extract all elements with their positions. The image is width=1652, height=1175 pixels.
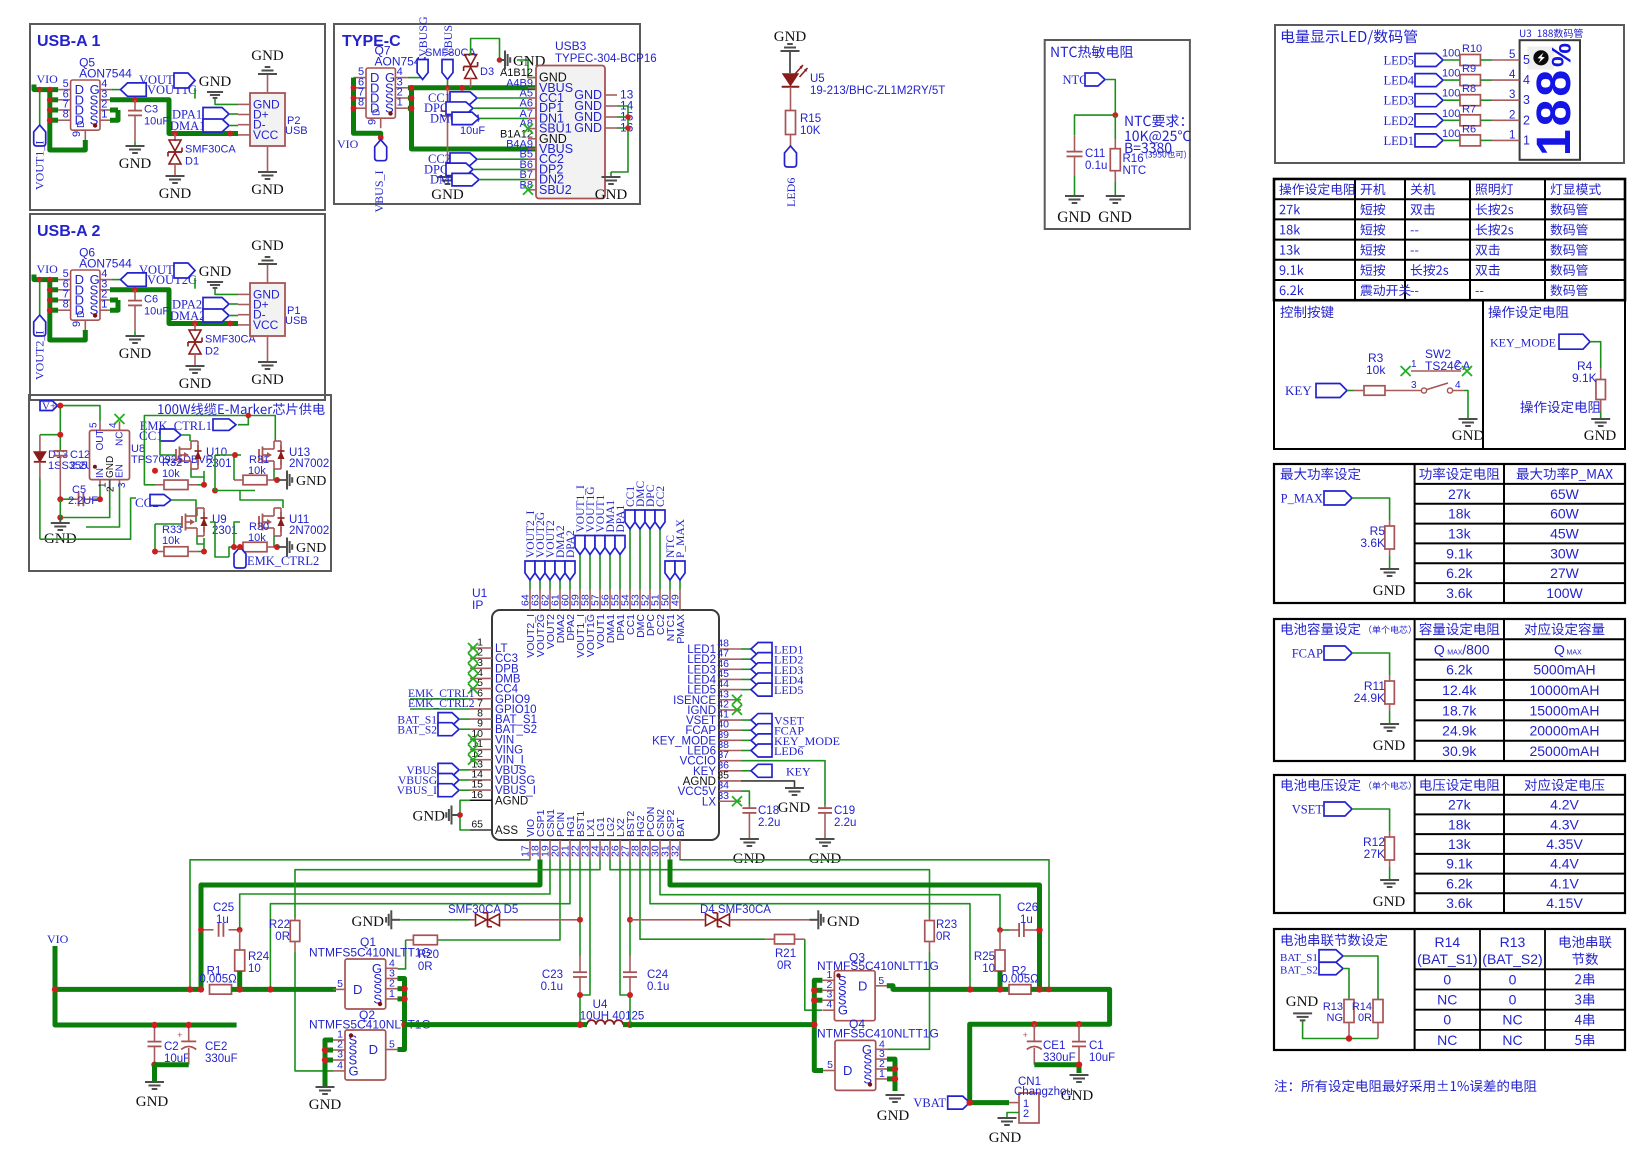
ground C1 bbox=[1061, 1075, 1094, 1104]
net flag LED1 (U1) bbox=[741, 643, 803, 657]
svg-text:2.2UF: 2.2UF bbox=[68, 495, 98, 507]
junction dots Q1 riser bbox=[401, 986, 407, 1028]
svg-text:SMF30CA: SMF30CA bbox=[185, 144, 236, 156]
net flag VOUT1G (top) bbox=[585, 487, 597, 590]
svg-text:4.1V: 4.1V bbox=[1550, 875, 1579, 891]
net flag VOUT2G bbox=[112, 273, 197, 287]
svg-text:25000mAH: 25000mAH bbox=[1529, 743, 1599, 759]
net flag VOUT1_I bbox=[33, 90, 47, 190]
svg-text:188: 188 bbox=[1528, 67, 1581, 156]
wire VCCIO to C19 bbox=[741, 761, 825, 805]
ground D5 left bbox=[352, 910, 401, 930]
svg-text:GND: GND bbox=[309, 1097, 342, 1113]
svg-text:DMA1: DMA1 bbox=[170, 119, 205, 133]
svg-text:GND: GND bbox=[296, 474, 326, 489]
svg-text:LED2: LED2 bbox=[1383, 114, 1414, 128]
resistor R12 27K bbox=[1363, 831, 1394, 880]
resistor R8 100 bbox=[1442, 83, 1530, 107]
svg-text:VCC: VCC bbox=[253, 128, 279, 142]
svg-text:GND: GND bbox=[159, 186, 192, 202]
LED U5 19-213/BHC-ZL1M2RY/5T bbox=[782, 65, 946, 111]
svg-text:D: D bbox=[843, 1063, 852, 1078]
svg-text:4: 4 bbox=[1523, 73, 1530, 87]
note bottom bbox=[1275, 1080, 1537, 1093]
svg-text:10k: 10k bbox=[162, 468, 180, 480]
transistor Q4 NTMFS5C410NLTT1G bbox=[823, 1038, 888, 1090]
section box control key bbox=[1274, 300, 1483, 449]
ground under C4 bbox=[431, 177, 464, 203]
svg-text:10K: 10K bbox=[800, 125, 821, 137]
net flag LED4 bbox=[1383, 74, 1459, 88]
transistor Q2 NTMFS5C410NLTT1G bbox=[333, 1029, 398, 1081]
svg-text:100W: 100W bbox=[1546, 585, 1583, 601]
wire Q1 S riser bbox=[398, 979, 405, 1050]
junction dot NTC bbox=[1112, 112, 1118, 118]
svg-text:U5: U5 bbox=[810, 73, 825, 85]
junction dot VBAT bbox=[967, 1099, 973, 1105]
svg-text:VCC: VCC bbox=[253, 318, 279, 332]
net label EMK_CTRL2 bbox=[408, 698, 475, 710]
svg-text:2N7002: 2N7002 bbox=[289, 525, 329, 537]
net flag VOUT2_I bbox=[33, 280, 47, 380]
ground SW2 bbox=[1452, 419, 1485, 444]
svg-text:18.7k: 18.7k bbox=[1442, 702, 1477, 718]
wire V+ node bbox=[40, 406, 100, 451]
transistor U11 2N7002 bbox=[259, 508, 329, 537]
svg-text:LED3: LED3 bbox=[1383, 94, 1414, 108]
wire Q3 S riser bbox=[814, 980, 823, 1070]
svg-text:4.3V: 4.3V bbox=[1550, 816, 1579, 832]
wire pin17 VIO bbox=[190, 860, 530, 990]
net flag KEY_MODE bbox=[1490, 334, 1601, 368]
svg-text:VBUS_I: VBUS_I bbox=[372, 170, 386, 212]
svg-text:2: 2 bbox=[1509, 109, 1515, 121]
wire pin30 CSN2 bbox=[660, 860, 1000, 931]
junction dots bus bbox=[132, 287, 233, 327]
svg-text:0R: 0R bbox=[275, 931, 290, 943]
ground under C11 bbox=[1057, 196, 1091, 226]
svg-text:13k: 13k bbox=[1448, 836, 1472, 852]
diode D5 SMF30CA bbox=[400, 904, 580, 927]
svg-text:3.6k: 3.6k bbox=[1446, 895, 1473, 911]
svg-text:100: 100 bbox=[1442, 108, 1460, 120]
section box NTC bbox=[1045, 40, 1190, 229]
svg-text:VIO: VIO bbox=[37, 262, 59, 276]
svg-text:KEY: KEY bbox=[1285, 383, 1312, 398]
svg-text:Q: Q bbox=[1554, 641, 1565, 657]
net flag VBUSG (U1) bbox=[398, 774, 470, 788]
svg-text:3: 3 bbox=[1411, 380, 1417, 391]
ground under R16 bbox=[1098, 196, 1132, 226]
svg-text:GND: GND bbox=[774, 29, 807, 45]
svg-text:TYPE-C: TYPE-C bbox=[342, 33, 401, 50]
svg-text:/800: /800 bbox=[1462, 641, 1489, 657]
svg-text:0: 0 bbox=[1443, 1012, 1451, 1028]
resistor R15 10K bbox=[786, 111, 822, 147]
capacitor C4 10uF bbox=[441, 88, 486, 177]
net flags CC1 DPC DMC bbox=[424, 91, 528, 125]
svg-text:1: 1 bbox=[101, 109, 107, 121]
net flag VOUT2_I (top) bbox=[525, 511, 537, 590]
svg-text:D1: D1 bbox=[185, 156, 199, 168]
svg-text:2301: 2301 bbox=[206, 458, 232, 470]
svg-text:GND: GND bbox=[413, 809, 446, 825]
svg-text:D: D bbox=[858, 978, 867, 993]
svg-text:(BAT_S1): (BAT_S1) bbox=[1417, 951, 1477, 967]
capacitor C5 2.2UF bbox=[60, 484, 100, 507]
svg-text:5: 5 bbox=[89, 422, 100, 428]
net flag VOUT1 bbox=[139, 73, 195, 99]
capacitor C23 0.1u bbox=[541, 956, 587, 1025]
svg-text:D: D bbox=[76, 311, 87, 318]
net flag LED4 (U1) bbox=[741, 673, 803, 687]
wire pin26 LX2 bbox=[620, 860, 630, 996]
svg-text:R13: R13 bbox=[1500, 934, 1526, 950]
wire pin19 CSN1 bbox=[240, 860, 550, 930]
resistor R24 10 bbox=[235, 930, 270, 990]
net flag BAT_S2 bbox=[1280, 962, 1343, 976]
svg-text:2: 2 bbox=[106, 486, 117, 492]
svg-text:R6: R6 bbox=[1462, 123, 1476, 135]
svg-text:3: 3 bbox=[117, 482, 128, 488]
wire VIO to Q5 bbox=[34, 85, 85, 151]
svg-text:C11: C11 bbox=[1085, 148, 1105, 160]
svg-text:8: 8 bbox=[63, 299, 69, 311]
wire BAT_S2 to R13 bbox=[1343, 969, 1349, 1000]
svg-text:VIO: VIO bbox=[47, 932, 69, 946]
svg-text:G: G bbox=[838, 1003, 848, 1018]
resistor R7 100 bbox=[1442, 103, 1530, 127]
wire AGND right bbox=[741, 781, 795, 788]
transistor Q5 AON7544 bbox=[58, 56, 132, 141]
diode D13 1SS355 bbox=[34, 435, 87, 540]
svg-text:AON7544: AON7544 bbox=[79, 257, 132, 271]
wire NTC node bbox=[1075, 115, 1116, 135]
net flag DPA2 (top) bbox=[565, 530, 577, 589]
junction dot AGND bbox=[457, 812, 463, 818]
wire AGND/ASS bbox=[460, 800, 470, 830]
svg-text:33: 33 bbox=[717, 790, 729, 802]
wire VCC5V to C18 bbox=[741, 791, 749, 805]
svg-text:5: 5 bbox=[389, 1039, 395, 1051]
svg-text:4: 4 bbox=[337, 1059, 343, 1071]
net flag NTC (top) bbox=[665, 535, 677, 590]
svg-text:9: 9 bbox=[71, 131, 83, 137]
net flag CC2 (top) bbox=[655, 486, 667, 590]
svg-text:6.2k: 6.2k bbox=[1446, 875, 1473, 891]
U1 right pins 48-33 bbox=[652, 638, 741, 809]
svg-text:10uF: 10uF bbox=[460, 125, 485, 137]
diode D1 SMF30CA TVS bbox=[168, 134, 236, 177]
resistor R33 10k bbox=[155, 524, 198, 556]
net flag LED2 bbox=[1383, 114, 1459, 128]
svg-text:D: D bbox=[369, 1042, 378, 1057]
IC U1 IP bbox=[472, 586, 719, 840]
switch SW2 TS24CA bbox=[1401, 347, 1472, 393]
svg-text:9: 9 bbox=[367, 119, 379, 125]
svg-text:45W: 45W bbox=[1550, 526, 1580, 542]
svg-text:4.4V: 4.4V bbox=[1550, 856, 1579, 872]
wire VIO TYPE-C bbox=[354, 78, 381, 140]
capacitor C24 0.1u bbox=[623, 956, 669, 1025]
svg-text:30.9k: 30.9k bbox=[1442, 743, 1477, 759]
section box battery series bbox=[1274, 929, 1625, 1050]
svg-text:GND: GND bbox=[1098, 209, 1132, 226]
wire Q4 S riser bbox=[887, 1059, 895, 1091]
svg-text:+: + bbox=[177, 1030, 182, 1040]
svg-text:SBU2: SBU2 bbox=[539, 183, 572, 197]
wire C2 CE2 gnd bbox=[155, 1065, 189, 1081]
net flag LED1 bbox=[1383, 134, 1459, 148]
net flag DMA1 bbox=[170, 119, 238, 133]
svg-text:9: 9 bbox=[71, 321, 83, 327]
wire pin24 LG1 bbox=[295, 860, 600, 919]
svg-text:MAX: MAX bbox=[1567, 649, 1583, 656]
svg-text:C18: C18 bbox=[758, 805, 779, 817]
wire switch node bus left bbox=[405, 1022, 581, 1027]
svg-text:0: 0 bbox=[1443, 971, 1451, 987]
svg-text:NTMFS5C410NLTT1G: NTMFS5C410NLTT1G bbox=[817, 959, 939, 973]
svg-text:GND: GND bbox=[251, 48, 284, 64]
junction dots U11 bbox=[231, 544, 280, 550]
resistor R30 10k bbox=[234, 521, 277, 552]
connector CN1 Changzhou bbox=[1007, 1076, 1073, 1123]
svg-text:NTMFS5C410NLTT1G: NTMFS5C410NLTT1G bbox=[817, 1027, 939, 1041]
svg-text:0.005Ω: 0.005Ω bbox=[199, 974, 237, 986]
svg-text:9.1K: 9.1K bbox=[1572, 371, 1597, 385]
svg-text:USB3: USB3 bbox=[555, 39, 587, 53]
svg-text:ASS: ASS bbox=[495, 825, 518, 837]
svg-text:10uF: 10uF bbox=[144, 306, 169, 318]
svg-text:2.2u: 2.2u bbox=[758, 817, 780, 829]
net flag BAT_S1 bbox=[1280, 950, 1343, 964]
ground under diode bbox=[179, 366, 212, 392]
wire pin29 PCON bbox=[650, 860, 970, 990]
junction dot C1 gnd bbox=[1076, 1062, 1082, 1068]
ground bbox=[1373, 724, 1406, 754]
svg-text:P_MAX: P_MAX bbox=[1281, 492, 1323, 506]
wire pin32 BAT bbox=[680, 860, 1049, 990]
resistor R25 10 bbox=[974, 930, 1005, 989]
svg-text:19-213/BHC-ZL1M2RY/5T: 19-213/BHC-ZL1M2RY/5T bbox=[810, 85, 945, 97]
ground below connector bbox=[251, 362, 284, 388]
svg-text:1u: 1u bbox=[216, 914, 229, 926]
ground above connector bbox=[251, 48, 284, 74]
svg-text:NC: NC bbox=[1502, 1012, 1522, 1028]
junction dots C5 bbox=[57, 496, 103, 520]
net flag KEY bbox=[1285, 383, 1354, 398]
resistor R32 10k bbox=[155, 457, 198, 490]
junction dots C26 bbox=[997, 927, 1043, 933]
net flag LED5 bbox=[1383, 54, 1459, 68]
svg-text:27W: 27W bbox=[1550, 565, 1580, 581]
svg-text:2N7002: 2N7002 bbox=[289, 458, 329, 470]
svg-text:V+: V+ bbox=[42, 401, 56, 413]
svg-text:DMA2: DMA2 bbox=[170, 309, 205, 323]
svg-text:0.1u: 0.1u bbox=[1085, 160, 1107, 172]
svg-text:330uF: 330uF bbox=[205, 1053, 238, 1065]
resistor R14 0R bbox=[1352, 1000, 1383, 1039]
svg-text:10000mAH: 10000mAH bbox=[1529, 682, 1599, 698]
svg-text:GND: GND bbox=[179, 376, 212, 392]
svg-text:VSET: VSET bbox=[1292, 803, 1324, 817]
svg-text:6.2k: 6.2k bbox=[1446, 662, 1473, 678]
svg-text:27k: 27k bbox=[1448, 797, 1472, 813]
junction dot D5 bbox=[577, 917, 583, 923]
svg-text:10k: 10k bbox=[248, 532, 266, 544]
svg-text:6.2k: 6.2k bbox=[1446, 565, 1473, 581]
section box operation set resistor bbox=[1483, 300, 1625, 449]
svg-text:GND: GND bbox=[136, 1094, 169, 1110]
junction dots VBUS bus bbox=[409, 85, 465, 111]
net flag LED5 (U1) bbox=[741, 683, 803, 697]
junction dots C2 CE2 bbox=[151, 1022, 192, 1068]
junction dots Q3 riser bbox=[811, 987, 817, 1028]
section box FCAP setting bbox=[1274, 619, 1625, 761]
net flag NTC bbox=[1063, 73, 1116, 115]
wire BAT_S1 to R14 bbox=[1343, 956, 1378, 1000]
resistor R2 0.005 bbox=[1001, 966, 1039, 995]
ground battery series bbox=[1286, 994, 1319, 1020]
wire battery bus bbox=[970, 989, 1110, 1102]
svg-text:C3: C3 bbox=[144, 104, 158, 116]
svg-text:GND: GND bbox=[1584, 428, 1617, 444]
wire pin22 BST1 bbox=[579, 860, 581, 957]
junction dots Q7 left bbox=[351, 85, 384, 141]
svg-text:0R: 0R bbox=[418, 961, 433, 973]
svg-text:AGND: AGND bbox=[495, 795, 528, 807]
svg-text:4.35V: 4.35V bbox=[1546, 836, 1583, 852]
resistor R1 0.005 bbox=[199, 966, 237, 995]
net flags CC2 DPC DMC bbox=[424, 152, 528, 186]
svg-text:USB-A 1: USB-A 1 bbox=[37, 33, 101, 50]
section box USB-A 2 bbox=[30, 214, 325, 400]
net flag VBUS_I (U1) bbox=[397, 784, 470, 797]
connector P2 USB bbox=[238, 74, 308, 172]
wire VOUT1 bus to VCC bbox=[110, 99, 238, 134]
net flag CC2 (emarker) bbox=[135, 495, 196, 523]
ground R4 bbox=[1584, 419, 1617, 444]
connector P1 USB bbox=[238, 264, 308, 362]
resistor R5 3.6K bbox=[1360, 520, 1394, 569]
ground C2 bbox=[136, 1082, 169, 1110]
wire U11 cluster bbox=[229, 491, 283, 558]
resistor R11 24.9K bbox=[1354, 675, 1395, 724]
section box VSET setting bbox=[1274, 775, 1625, 913]
svg-text:G: G bbox=[349, 1063, 359, 1078]
net flag VOUT2 (top) bbox=[545, 520, 557, 589]
wire pin18 CSP1 bbox=[201, 860, 540, 990]
svg-text:0: 0 bbox=[1509, 971, 1517, 987]
flash icon bbox=[1528, 47, 1555, 70]
svg-text:EN: EN bbox=[115, 464, 126, 478]
junction dot EMK1 bbox=[246, 413, 252, 419]
net flag DPA2 bbox=[172, 298, 238, 312]
net flag VBUS_I bbox=[372, 140, 387, 213]
svg-text:10uF: 10uF bbox=[144, 116, 169, 128]
junction dot VIO bbox=[52, 986, 58, 992]
svg-text:D4 SMF30CA: D4 SMF30CA bbox=[700, 904, 771, 916]
wire U9 cluster bbox=[155, 522, 229, 557]
svg-text:4: 4 bbox=[1455, 380, 1461, 391]
junction dots Q2 riser bbox=[322, 1047, 328, 1063]
wire pin27 BST2 bbox=[629, 860, 631, 957]
resistor R23 0R bbox=[887, 918, 957, 1049]
net flag EMK_CTRL2 bbox=[234, 544, 319, 568]
svg-text:16: 16 bbox=[471, 789, 483, 801]
wire U13 cluster bbox=[215, 455, 274, 491]
svg-text:5: 5 bbox=[1509, 49, 1515, 61]
junction dots C25 bbox=[198, 927, 243, 933]
wire Q2 S riser bbox=[325, 1040, 333, 1080]
net flag LED6 (U1) bbox=[741, 744, 803, 758]
ground under diode bbox=[159, 176, 192, 202]
svg-text:4: 4 bbox=[827, 999, 833, 1011]
net flag DPA1 (top) bbox=[615, 505, 627, 590]
svg-text:R23: R23 bbox=[936, 919, 957, 931]
svg-text:0.005Ω: 0.005Ω bbox=[1001, 974, 1039, 986]
svg-text:CC2: CC2 bbox=[655, 486, 667, 507]
svg-text:3.6K: 3.6K bbox=[1360, 536, 1385, 550]
transistor Q3 NTMFS5C410NLTT1G bbox=[822, 969, 887, 1021]
net flag VSET (U1) bbox=[741, 714, 805, 728]
svg-text:KEY: KEY bbox=[786, 764, 811, 778]
svg-text:NC: NC bbox=[1502, 1032, 1522, 1048]
diode D3 SMF30CA TVS bbox=[425, 47, 494, 88]
svg-text:BAT_S1: BAT_S1 bbox=[1280, 952, 1318, 964]
junction dot bottom bbox=[1346, 1035, 1352, 1041]
svg-text:USB: USB bbox=[285, 315, 308, 327]
svg-text:R16: R16 bbox=[1123, 153, 1144, 165]
svg-text:USB-A 2: USB-A 2 bbox=[37, 223, 101, 240]
svg-text:C1: C1 bbox=[1089, 1040, 1104, 1052]
net flag VBAT bbox=[913, 1096, 969, 1110]
svg-text:NC: NC bbox=[1437, 992, 1457, 1008]
svg-text:R7: R7 bbox=[1462, 103, 1476, 115]
net flag VBUSG bbox=[408, 16, 430, 80]
section box TYPE-C bbox=[334, 24, 640, 204]
wire R4 gnd bbox=[1600, 412, 1602, 419]
ground above connector bbox=[251, 238, 284, 264]
resistor R22 0R bbox=[269, 918, 333, 1071]
svg-text:GND: GND bbox=[119, 156, 152, 172]
note NTC requirements bbox=[1125, 114, 1191, 159]
svg-text:GND: GND bbox=[199, 264, 232, 280]
wire pin23 LX1 bbox=[580, 860, 590, 996]
svg-text:5: 5 bbox=[827, 1059, 833, 1071]
net flag VBUS (top) bbox=[441, 25, 455, 88]
svg-text:GND: GND bbox=[199, 74, 232, 90]
svg-text:+: + bbox=[1023, 1030, 1028, 1040]
svg-text:NG: NG bbox=[1327, 1012, 1344, 1024]
svg-text:100: 100 bbox=[1442, 88, 1460, 100]
net flag EMK_CTRL1 bbox=[140, 416, 249, 434]
svg-text:D: D bbox=[353, 982, 362, 997]
svg-text:18k: 18k bbox=[1448, 506, 1472, 522]
svg-text:2: 2 bbox=[1023, 1108, 1029, 1120]
svg-text:GND: GND bbox=[574, 121, 602, 135]
svg-text:10: 10 bbox=[982, 963, 995, 975]
svg-text:4.15V: 4.15V bbox=[1546, 895, 1583, 911]
net flag DMA2 (top) bbox=[555, 525, 567, 589]
junction dots right gnd bbox=[625, 114, 631, 131]
wire D13 bottom loop bbox=[40, 498, 136, 539]
svg-text:LX: LX bbox=[702, 796, 716, 808]
net flag CC1 (top) bbox=[625, 486, 637, 590]
net flag DMA1 (top) bbox=[605, 500, 617, 590]
net flag DMA2 bbox=[170, 309, 238, 323]
net flag VOUT1 (top) bbox=[595, 495, 607, 590]
